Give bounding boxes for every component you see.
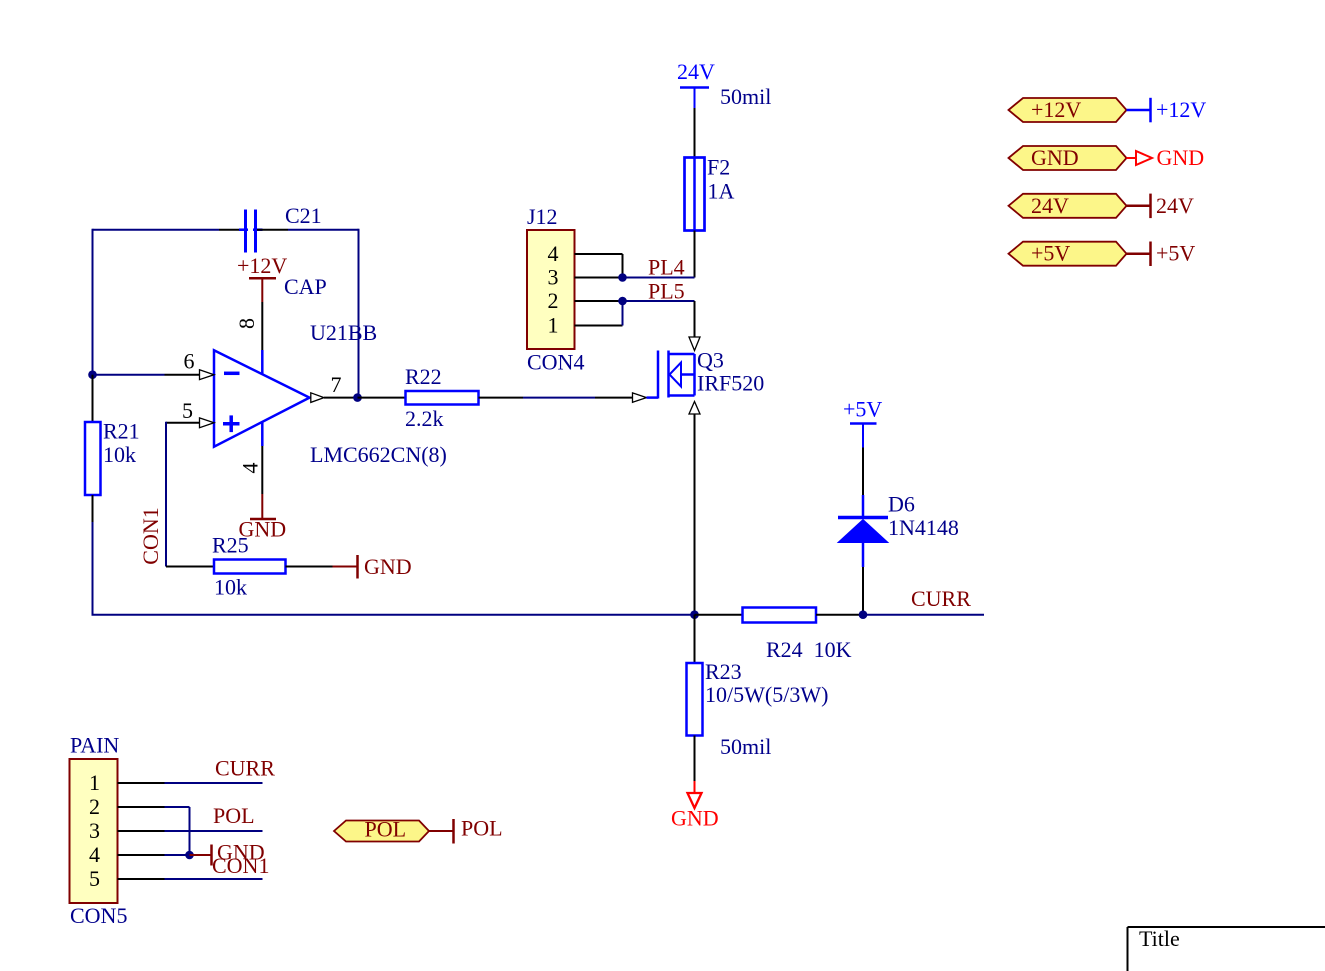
svg-text:5: 5 — [89, 866, 100, 891]
node PL4 junction — [618, 273, 627, 282]
label 50mil top — [720, 84, 771, 109]
connector J12 — [527, 230, 575, 349]
svg-text:+12V: +12V — [237, 253, 287, 278]
svg-text:50mil: 50mil — [720, 734, 771, 759]
wire feedback left vertical — [92, 229, 94, 375]
label R23 — [705, 659, 742, 684]
wire 24V to fuse — [694, 108, 696, 158]
CON5 pin 5 lead — [118, 878, 165, 880]
node bottom junction — [690, 610, 699, 619]
resistor R24 — [695, 608, 864, 623]
svg-text:1: 1 — [89, 770, 100, 795]
transistor Q3 IRF520 — [647, 351, 695, 399]
op-amp U21BB pin 4 lead — [261, 422, 264, 494]
label CON5 — [70, 903, 127, 928]
svg-text:R24 10K: R24 10K — [766, 637, 852, 662]
svg-text:PL5: PL5 — [648, 279, 685, 304]
pin number 8 — [234, 318, 259, 329]
wire net PL4 — [623, 277, 695, 279]
wire R22 to gate — [523, 397, 595, 399]
svg-text:GND: GND — [364, 554, 412, 579]
svg-text:4: 4 — [238, 463, 263, 474]
svg-text:24V: 24V — [1156, 193, 1194, 218]
pin number 3 of J12 — [548, 265, 559, 290]
node junction inverting input — [88, 370, 97, 379]
svg-text:J12: J12 — [527, 204, 558, 229]
pin number 4 of J12 — [548, 241, 559, 266]
svg-text:PAIN: PAIN — [70, 733, 119, 758]
svg-text:PL4: PL4 — [648, 255, 685, 280]
power +5V label — [843, 397, 882, 422]
power 24V bar symbol — [680, 88, 709, 109]
power 24V bar symbol right — [1127, 193, 1195, 218]
connector CON5 label PAIN — [70, 733, 119, 758]
power +5V bar symbol right — [1127, 241, 1196, 266]
op-amp pin 6 lead — [165, 370, 215, 380]
wire net PL5 — [623, 300, 695, 302]
svg-text:24V: 24V — [1031, 193, 1069, 218]
title block — [1128, 926, 1325, 971]
svg-text:R22: R22 — [405, 364, 442, 389]
svg-text:7: 7 — [331, 372, 342, 397]
net label CON1 (vertical) — [138, 507, 163, 564]
svg-text:10k: 10k — [214, 575, 247, 600]
svg-text:+12V: +12V — [1156, 97, 1206, 122]
pin number 6 — [184, 349, 195, 374]
power 24V label — [677, 59, 715, 84]
resistor R25 — [166, 560, 333, 574]
svg-text:CON5: CON5 — [70, 903, 127, 928]
J12 pin 3 lead — [575, 277, 623, 279]
pin number 3 of CON5 — [89, 818, 100, 843]
svg-text:R21: R21 — [103, 419, 140, 444]
svg-text:F2: F2 — [707, 155, 730, 180]
ground GND at CON5 — [190, 840, 265, 866]
svg-text:POL: POL — [461, 816, 503, 841]
svg-text:IRF520: IRF520 — [697, 371, 764, 396]
net label PL5 — [648, 279, 685, 304]
wire pin2 to pin4 node — [165, 807, 190, 855]
svg-text:4: 4 — [89, 842, 100, 867]
svg-text:1N4148: 1N4148 — [888, 515, 959, 540]
wire fuse to PL4 — [694, 231, 696, 278]
net label CON1 at CON5 — [212, 853, 269, 878]
pin number 2 of CON5 — [89, 794, 100, 819]
wire bottom horizontal — [92, 614, 695, 616]
label R22 — [405, 364, 442, 389]
svg-text:8: 8 — [234, 318, 259, 329]
label D6 — [888, 492, 915, 517]
label R21 — [103, 419, 140, 444]
port 24V hexagon — [1009, 193, 1127, 218]
svg-text:POL: POL — [213, 803, 255, 828]
label 50mil bottom — [720, 734, 771, 759]
capacitor C21 — [239, 210, 263, 253]
net label CURR — [911, 586, 971, 611]
wire pin4 to PL4 node — [622, 254, 624, 278]
label R25 — [212, 533, 249, 558]
svg-text:R25: R25 — [212, 533, 249, 558]
value 2.2k of R22 — [405, 406, 444, 431]
capacitor C1 left pin — [219, 229, 244, 231]
wire feedback right vertical — [358, 229, 360, 398]
capacitor C21 right pin — [257, 229, 288, 231]
pin number 5 — [182, 398, 193, 423]
svg-text:CURR: CURR — [215, 756, 275, 781]
svg-text:CON4: CON4 — [527, 350, 584, 375]
net label POL at CON5 — [213, 803, 255, 828]
transistor Q3 source pin arrow — [689, 402, 700, 415]
node PL5 junction — [618, 297, 627, 306]
value 1N4148 of D6 — [888, 515, 959, 540]
svg-text:GND: GND — [671, 806, 719, 831]
wire net CURR — [863, 614, 984, 616]
ground GND at pin 4 — [239, 494, 287, 542]
pin number 5 of CON5 — [89, 866, 100, 891]
svg-text:10k: 10k — [103, 442, 136, 467]
svg-text:GND: GND — [1031, 145, 1079, 170]
wire pin 5 vertical — [165, 422, 167, 567]
svg-text:U21BB: U21BB — [310, 320, 377, 345]
CON5 pin 4 lead — [118, 854, 165, 856]
svg-text:24V: 24V — [677, 59, 715, 84]
label CAP — [284, 274, 327, 299]
wire left vertical bottom — [92, 522, 94, 615]
wire feedback top horizontal left segment — [93, 229, 220, 231]
wire net CURR stub — [165, 782, 263, 784]
power +5V bar symbol — [850, 424, 877, 448]
svg-text:+5V: +5V — [1156, 241, 1195, 266]
wire diode to CURR node — [862, 567, 864, 615]
svg-text:5: 5 — [182, 398, 193, 423]
J12 pin 4 lead — [575, 253, 623, 255]
svg-text:3: 3 — [89, 818, 100, 843]
svg-text:POL: POL — [365, 817, 407, 842]
node CURR junction — [859, 610, 868, 619]
net label CURR at CON5 — [215, 756, 275, 781]
wire +5V to diode — [862, 448, 864, 496]
svg-text:CAP: CAP — [284, 274, 327, 299]
op-amp U21BB body — [214, 350, 310, 446]
pin number 1 of CON5 — [89, 770, 100, 795]
pin number 4 — [238, 463, 263, 474]
svg-text:4: 4 — [548, 241, 559, 266]
label CON4 — [527, 350, 584, 375]
svg-text:CON1: CON1 — [138, 507, 163, 564]
fuse F2 — [685, 158, 705, 231]
pin number 2 of J12 — [548, 288, 559, 313]
value 10k of R21 — [103, 442, 136, 467]
port +12V hexagon — [1009, 97, 1127, 122]
pin number 1 of J12 — [548, 313, 559, 338]
svg-text:Q3: Q3 — [697, 348, 724, 373]
svg-text:CON1: CON1 — [212, 853, 269, 878]
svg-text:1: 1 — [548, 313, 559, 338]
port POL hexagon — [334, 817, 429, 842]
wire pin1 to PL5 node — [622, 301, 624, 326]
svg-text:6: 6 — [184, 349, 195, 374]
svg-text:LMC662CN(8): LMC662CN(8) — [310, 442, 447, 467]
svg-text:C21: C21 — [285, 203, 322, 228]
label F2 — [707, 155, 730, 180]
CON5 pin 2 lead — [118, 806, 165, 808]
transistor Q3 drain pin arrow — [689, 337, 700, 351]
diode D6 — [838, 495, 888, 567]
svg-text:Title: Title — [1139, 926, 1180, 951]
wire feedback top horizontal right segment — [288, 229, 359, 231]
J12 pin 2 lead — [575, 300, 623, 302]
connector J12 label — [527, 204, 558, 229]
value 1A of F2 — [708, 179, 735, 204]
label U21BB — [310, 320, 377, 345]
svg-text:2.2k: 2.2k — [405, 406, 444, 431]
power +12V bar symbol right — [1127, 97, 1207, 122]
svg-text:+12V: +12V — [1031, 97, 1081, 122]
port +5V hexagon — [1009, 241, 1127, 266]
node pin4 junction — [185, 851, 194, 860]
node output junction — [353, 393, 362, 402]
svg-text:10/5W(5/3W): 10/5W(5/3W) — [705, 682, 828, 707]
ground GND arrow symbol right — [1127, 145, 1205, 170]
svg-text:+5V: +5V — [843, 397, 882, 422]
wire net POL stub — [165, 830, 263, 832]
wire PL5 to drain — [694, 301, 696, 337]
op-amp pin 5 lead — [166, 418, 214, 428]
svg-text:+5V: +5V — [1031, 241, 1070, 266]
svg-text:3: 3 — [548, 265, 559, 290]
op-amp U21BB pin 8 lead — [261, 302, 263, 375]
value 10k of R25 — [214, 575, 247, 600]
J12 pin 1 lead — [575, 325, 623, 327]
resistor R23 — [687, 615, 703, 781]
label IRF520 — [697, 371, 764, 396]
label R24 10K — [766, 637, 852, 662]
CON5 pin 1 lead — [118, 782, 165, 784]
label Q3 — [697, 348, 724, 373]
resistor R21 — [85, 375, 101, 522]
pin number 7 — [331, 372, 342, 397]
power +12V label — [237, 253, 287, 278]
op-amp pin 7 lead — [311, 393, 358, 403]
svg-text:GND: GND — [1157, 145, 1205, 170]
svg-text:2: 2 — [548, 288, 559, 313]
port GND hexagon — [1009, 145, 1127, 170]
transistor Q3 gate lead — [595, 393, 647, 402]
wire to pin 6 — [93, 374, 165, 376]
ground GND arrow at R23 — [671, 781, 719, 831]
wire pin4 to node — [165, 854, 190, 856]
pin number 4 of CON5 — [89, 842, 100, 867]
wire net CON1 stub — [165, 878, 263, 880]
CON5 pin 3 lead — [118, 830, 165, 832]
ground GND at R25 — [333, 554, 412, 579]
svg-text:R23: R23 — [705, 659, 742, 684]
wire source to bottom node — [694, 414, 696, 615]
label C21 — [285, 203, 322, 228]
label LMC662CN(8) — [310, 442, 447, 467]
net label PL4 — [648, 255, 685, 280]
resistor R22 — [358, 391, 524, 405]
value 10/5W(5/3W) of R23 — [705, 682, 828, 707]
svg-text:D6: D6 — [888, 492, 915, 517]
connector CON5 — [70, 759, 118, 903]
svg-text:CURR: CURR — [911, 586, 971, 611]
svg-text:2: 2 — [89, 794, 100, 819]
power +12V bar symbol — [249, 278, 276, 302]
svg-text:1A: 1A — [708, 179, 735, 204]
svg-text:50mil: 50mil — [720, 84, 771, 109]
power POL bar symbol — [429, 816, 503, 844]
